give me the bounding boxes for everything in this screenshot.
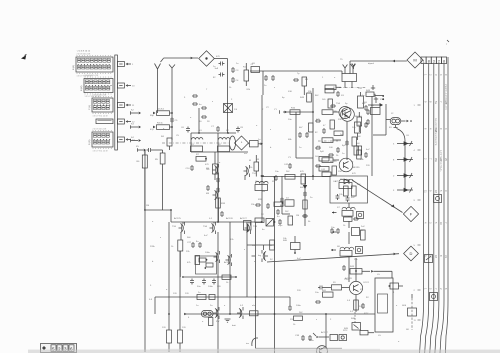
resistor R11 xyxy=(328,99,332,108)
coil S4 xyxy=(355,122,361,140)
value label b at 322,142 xyxy=(322,141,324,143)
switch output stub 14 xyxy=(117,137,135,142)
transistor TS11 xyxy=(344,279,363,295)
wire IF rail left xyxy=(261,95,263,222)
value label C5 at 176,136 xyxy=(176,135,180,137)
capacitor C26 xyxy=(330,228,340,234)
value label 2k at 336,156 xyxy=(336,155,339,157)
svg-text:2 4 6 8 10 14 18: 2 4 6 8 10 14 18 xyxy=(85,75,99,77)
svg-text:25V: 25V xyxy=(290,319,294,321)
value label 10u at 315,293 xyxy=(315,292,319,294)
value label 4k7 at 299,128 xyxy=(299,127,303,129)
resistor R26 xyxy=(344,186,349,196)
cable tap 4 xyxy=(414,150,421,152)
value label 470 at 352,174 xyxy=(352,173,356,175)
value label 0.2 at 350,312 xyxy=(350,311,354,313)
value label 68p at 150,116 xyxy=(150,115,154,117)
capacitor C44 xyxy=(303,191,307,197)
crystal box X4 xyxy=(224,104,238,113)
resistor R28 xyxy=(344,217,360,228)
trimmer box xyxy=(249,141,264,147)
value label S7 at 337,208 xyxy=(337,207,340,209)
value label 1k5 at 322,100 xyxy=(322,99,326,101)
value label 220 at 217,287 xyxy=(217,286,221,288)
value label Y2 at 266,108 xyxy=(266,107,269,109)
component R46 xyxy=(360,331,374,335)
value label 10n at 288,120 xyxy=(288,119,292,121)
value label 4n at 262,230 xyxy=(262,229,265,231)
value label 4p7 at 362,104 xyxy=(362,103,366,105)
value label 7p at 297,74 xyxy=(297,73,300,75)
svg-text:1 3 5 7 9 11 15 19: 1 3 5 7 9 11 15 19 xyxy=(93,150,108,152)
value label b at 270,148 xyxy=(270,147,272,149)
cable conductor 2 xyxy=(425,57,433,353)
value label a at 152,222 xyxy=(152,221,154,223)
value label 470 at 300,172 xyxy=(300,171,304,173)
svg-text:AFSTEMSCHAAL: AFSTEMSCHAAL xyxy=(439,150,442,173)
value label 39k at 317,147 xyxy=(317,146,321,148)
trim icon TP2 xyxy=(356,247,363,254)
value label R46 at 351,319 xyxy=(351,318,356,320)
node dot osc xyxy=(198,132,229,134)
wire y314 rail xyxy=(184,313,375,315)
value label 9V at 366,298 xyxy=(366,297,369,299)
value label 1k at 343,226 xyxy=(343,225,346,227)
value label AGC at 280,206 xyxy=(280,204,285,207)
resistor R15 xyxy=(332,166,336,175)
value label X2 at 261,215 xyxy=(261,214,264,216)
value label AC128 at 345,279 xyxy=(345,277,352,280)
plug socket D xyxy=(404,246,419,261)
plug socket F xyxy=(403,206,418,221)
svg-text:AC126: AC126 xyxy=(226,217,233,220)
value label 100u at 205,253 xyxy=(205,252,211,254)
value label 100n at 296,306 xyxy=(296,305,302,307)
stub arrow a xyxy=(332,211,337,213)
trim icon TP1 xyxy=(357,212,364,219)
value label 7 at 206,90 xyxy=(206,89,208,91)
cable conductor 3 xyxy=(430,57,438,353)
svg-text:M: M xyxy=(413,57,416,62)
switch frame bar xyxy=(115,55,118,150)
capacitor C1 xyxy=(213,62,225,69)
stub arrow d xyxy=(313,333,329,338)
capacitor C19 xyxy=(315,119,321,123)
wire output hook xyxy=(246,338,258,346)
value label OC74 at 363,283 xyxy=(363,282,369,284)
gang link line xyxy=(162,142,229,144)
wire x305 rail xyxy=(304,177,306,226)
cable tap 5 xyxy=(414,245,421,247)
detector box xyxy=(330,176,368,203)
value label 15k at 251,205 xyxy=(251,204,255,206)
value label 1k at 171,247 xyxy=(171,246,174,248)
svg-text:8: 8 xyxy=(443,59,445,63)
capacitor C42 xyxy=(284,163,292,169)
capacitor C23 xyxy=(274,175,278,181)
value label 1k at 293,325 xyxy=(293,324,296,326)
wire IF top link xyxy=(262,177,331,181)
capacitor C40 xyxy=(366,109,370,125)
value label 5W at 216,322 xyxy=(216,321,220,323)
IF transformer S5 xyxy=(255,181,268,191)
svg-text:AC128: AC128 xyxy=(224,261,231,264)
svg-text:9C: 9C xyxy=(270,259,273,261)
resistor R38 xyxy=(288,216,293,225)
resistor R10 xyxy=(325,89,334,93)
transistor TS13 xyxy=(213,307,219,319)
box X2 xyxy=(266,219,274,227)
value label 220 at 366,166 xyxy=(366,165,370,167)
capacitor C41 xyxy=(315,164,326,171)
value label 120 at 173,294 xyxy=(173,293,177,295)
value label AC125 at 174,219 xyxy=(174,217,181,220)
value label 75 at 340,60 xyxy=(340,59,343,61)
svg-text:9W: 9W xyxy=(434,158,438,162)
value label 82 at 315,133 xyxy=(315,132,318,134)
resistor R54 xyxy=(209,318,213,326)
svg-text:1M: 1M xyxy=(146,205,149,207)
antenna dipole xyxy=(342,64,357,88)
resistor R18 xyxy=(325,85,341,90)
capacitor C36 xyxy=(342,265,346,271)
value label 8k2 at 315,96 xyxy=(315,95,319,97)
cable conductor 5 xyxy=(440,57,448,353)
value label 5n6 at 317,167 xyxy=(317,166,321,168)
value label x at 316,320 xyxy=(316,319,318,321)
svg-text:1: 1 xyxy=(423,59,425,63)
box Z3 xyxy=(368,95,390,135)
driver transformer T1 xyxy=(202,311,214,318)
svg-text:500u: 500u xyxy=(309,340,315,342)
wire antenna to plug xyxy=(161,57,199,62)
capacitor C25 xyxy=(346,196,350,202)
svg-text:AC127: AC127 xyxy=(240,217,247,220)
value label o at 256,126 xyxy=(256,125,258,127)
resistor R29 xyxy=(361,230,366,240)
resistor R34 xyxy=(270,240,275,250)
icon box E1 xyxy=(434,195,442,203)
node J1 xyxy=(171,112,173,128)
capacitor C7 xyxy=(211,126,220,132)
orientation mark xyxy=(21,54,27,59)
capacitor C34 xyxy=(278,219,282,225)
capacitor C39 xyxy=(288,300,321,311)
capacitor C30 xyxy=(202,279,206,285)
cable tap 9 xyxy=(414,200,421,202)
svg-text:GELUIDSWEERGAVE: GELUIDSWEERGAVE xyxy=(434,118,437,146)
resistor R53 xyxy=(250,311,259,316)
svg-text:NTC: NTC xyxy=(343,330,348,332)
value label o at 398,342 xyxy=(398,341,400,343)
resistor R13 xyxy=(334,131,343,135)
plug socket D1 xyxy=(199,51,215,67)
value label 6k8 at 357,137 xyxy=(357,136,361,138)
value label BF at 334,112 xyxy=(334,111,337,113)
capacitor C17 xyxy=(298,132,302,138)
value label 5 at 184,98 xyxy=(184,97,186,99)
value label 1a at 196,306 xyxy=(196,305,199,307)
resistor R36 xyxy=(178,251,187,352)
capacitor C4 xyxy=(231,77,239,83)
value label a at 352,162 xyxy=(352,161,354,163)
capacitor C14 xyxy=(364,105,368,111)
value label 12k at 339,195 xyxy=(339,194,343,196)
value label 2k at 270,246 xyxy=(270,245,273,247)
value label 2n at 310,198 xyxy=(310,197,313,199)
transistor TS3 xyxy=(339,158,360,172)
detector coil S7 xyxy=(342,207,355,216)
value label OA79 at 333,182 xyxy=(333,180,339,183)
value label 500u at 309,341 xyxy=(309,340,315,342)
capacitor C45 xyxy=(302,214,308,218)
svg-text:100n: 100n xyxy=(296,305,302,307)
input stub K4 xyxy=(131,137,142,142)
value label dipool at 368,64 xyxy=(368,63,374,65)
capacitor C15 xyxy=(322,128,326,134)
capacitor C3 xyxy=(231,67,239,73)
svg-text:AC127: AC127 xyxy=(321,331,328,334)
svg-text:C (L): C (L) xyxy=(89,105,91,110)
resistor R51 xyxy=(357,150,361,159)
wire tuner down xyxy=(346,122,348,160)
capacitor C16 xyxy=(328,147,340,157)
value label 1n at 258,140 xyxy=(258,139,261,141)
value label 33k at 360,160 xyxy=(360,159,364,161)
node dots rails xyxy=(144,111,357,315)
switch SK1 contact block xyxy=(73,51,113,78)
wire x146 rail xyxy=(144,150,146,210)
value label 28 at 207,122 xyxy=(207,121,210,123)
resistor R56 xyxy=(249,155,259,177)
output box B2 xyxy=(197,292,215,300)
capacitor C31 xyxy=(212,279,216,285)
value label NTC at 364,314 xyxy=(364,313,369,315)
value label 4 at 393,293 xyxy=(393,292,395,294)
resistor R16 xyxy=(290,108,300,115)
tuning capacitor C9 rotor xyxy=(230,136,236,150)
svg-text:1M: 1M xyxy=(296,215,299,217)
switch output stub 12 xyxy=(117,119,135,124)
capacitor C29 xyxy=(190,279,194,285)
value label SK at 406,330 xyxy=(406,329,409,331)
value label 4u7 at 204,236 xyxy=(204,235,208,237)
wire x274 rail xyxy=(274,176,276,353)
speaker terminal xyxy=(388,283,403,289)
value label 1n at 342,154 xyxy=(342,153,345,155)
value label x at 244,250 xyxy=(244,249,246,251)
wire det chain xyxy=(348,203,350,282)
value label e at 224,306 xyxy=(224,305,226,307)
cable tap 1 xyxy=(414,105,421,107)
value label C52 at 358,89 xyxy=(358,88,363,90)
svg-text:2 4 6 8 10 14 18: 2 4 6 8 10 14 18 xyxy=(77,53,91,55)
value label 0.1 at 209,219 xyxy=(209,218,213,220)
wire volume line xyxy=(267,253,399,262)
contact pin 5 xyxy=(393,141,413,146)
resistor R58 xyxy=(319,157,329,162)
switch SK3 contact block xyxy=(89,94,113,117)
value label 47p at 150,130 xyxy=(150,129,154,131)
svg-text:2 4 6 8 10 14 18: 2 4 6 8 10 14 18 xyxy=(93,94,107,96)
value label o at 334,78 xyxy=(334,77,336,79)
value label 2a at 210,306 xyxy=(210,305,213,307)
capacitor C22 xyxy=(364,152,368,158)
capacitor C28 xyxy=(198,242,202,248)
value label 5k at 308,222 xyxy=(308,221,311,223)
resistor R48 xyxy=(300,93,311,102)
value label x at 270,130 xyxy=(270,129,272,131)
ground mark G1 xyxy=(225,319,231,322)
value label x at 274,88 xyxy=(274,87,276,89)
value label 47k at 187,263 xyxy=(187,262,191,264)
svg-text:3: 3 xyxy=(433,59,435,63)
transistor TS12 xyxy=(317,346,328,353)
wire left rail lower xyxy=(144,210,146,352)
switch link dashed xyxy=(411,298,413,330)
wire gang top rail xyxy=(191,133,236,152)
capacitor C24 xyxy=(336,194,340,200)
value label 4 at 188,318 xyxy=(188,317,190,319)
wire to speaker xyxy=(362,270,392,278)
resistor R17 xyxy=(309,123,314,132)
resistor R52 xyxy=(322,172,331,176)
value label 4u7 at 297,259 xyxy=(297,258,301,260)
wire TS11 up xyxy=(355,258,357,281)
value label 10n at 331,228 xyxy=(331,227,335,229)
value label 5k6 at 187,238 xyxy=(187,237,191,239)
value label o at 202,322 xyxy=(202,321,204,323)
value label 50u at 197,287 xyxy=(197,286,201,288)
value label 8u at 196,242 xyxy=(196,241,199,243)
value label 3p9 at 320,152 xyxy=(320,151,324,153)
capacitor C5 xyxy=(170,117,178,123)
value label 1M at 296,216 xyxy=(296,215,299,217)
collector load R22 xyxy=(357,112,362,132)
wire y297 rail xyxy=(155,297,256,314)
resistor R6 xyxy=(137,151,148,211)
value label AC128 at 224,263 xyxy=(224,261,231,264)
resistor R50 xyxy=(345,137,356,146)
coil S2 xyxy=(218,138,230,152)
value label a at 219,163 xyxy=(219,162,221,164)
resistor R32 xyxy=(222,275,231,279)
capacitor C35 xyxy=(318,286,331,290)
value label 0.2 at 240,306 xyxy=(240,305,244,307)
svg-text:B (M): B (M) xyxy=(81,85,83,91)
value label 10n at 275,172 xyxy=(275,171,279,173)
transistor TS14 xyxy=(237,307,243,319)
value label Y3 at 288,158 xyxy=(288,157,291,159)
switch SK4 slider bar xyxy=(96,119,113,124)
cable conductor 6 xyxy=(446,40,450,353)
svg-text:AC125: AC125 xyxy=(174,217,181,220)
capacitor C32 xyxy=(216,177,220,193)
value label C38 at 295,336 xyxy=(295,335,300,337)
value label batt at 232,326 xyxy=(232,324,236,327)
value label 220 at 297,291 xyxy=(297,290,301,292)
svg-text:BF195: BF195 xyxy=(330,161,337,163)
value label 22k at 186,252 xyxy=(186,251,190,253)
stub arrow c xyxy=(331,249,336,251)
contact pin 0 xyxy=(393,173,413,178)
resistor R25 xyxy=(301,174,306,184)
value label 100 at 359,307 xyxy=(359,306,363,308)
ground T1 xyxy=(371,85,375,90)
diode X3 xyxy=(303,185,307,189)
switch output stub 10 xyxy=(117,83,135,88)
value label Z at 262,110 xyxy=(262,109,264,111)
value label 47 at 323,126 xyxy=(323,125,326,127)
transistor TS5 xyxy=(172,222,185,240)
diode X1 xyxy=(344,179,349,184)
value label b at 152,262 xyxy=(152,261,154,263)
resistor R30 xyxy=(178,240,183,277)
value label 1n at 236,64 xyxy=(236,63,239,65)
svg-text:VERKLARING BLOK: VERKLARING BLOK xyxy=(444,84,447,110)
value label 2k2 at 299,313 xyxy=(299,312,303,314)
wire mid rail xyxy=(184,276,236,278)
capacitor C6 xyxy=(181,127,190,133)
box Z2 xyxy=(352,228,365,236)
capacitor C33 xyxy=(220,211,224,217)
value label J2 at 391,114 xyxy=(391,113,394,115)
cable conductor 4 xyxy=(435,57,443,353)
plug socket M xyxy=(407,52,423,68)
svg-text:100n: 100n xyxy=(208,286,214,288)
svg-text:C: C xyxy=(444,190,448,192)
value label e at 254,262 xyxy=(254,261,256,263)
stub arrow b xyxy=(332,231,337,233)
value label 45 at 360,290 xyxy=(360,289,363,291)
capacitor C8 xyxy=(236,127,244,133)
value label 1k at 250,168 xyxy=(250,167,253,169)
value label S10 at 288,92 xyxy=(288,91,293,93)
value label osc at 244,154 xyxy=(244,153,248,155)
contact pin stem xyxy=(397,129,406,191)
input stub K5 xyxy=(136,146,153,152)
capacitor C27 xyxy=(187,242,195,248)
pot box R57 xyxy=(244,221,252,233)
capacitor C43 xyxy=(280,197,284,203)
value label 2k2 at 286,172 xyxy=(286,171,290,173)
svg-text:R3 1k: R3 1k xyxy=(157,123,164,125)
value label log at 258,256 xyxy=(258,255,262,257)
svg-text:AGC: AGC xyxy=(280,204,285,207)
wire out coupling xyxy=(256,296,291,298)
value label 2k2 at 252,246 xyxy=(252,245,256,247)
value label det at 262,192 xyxy=(262,190,265,193)
wire x230 rail xyxy=(218,222,230,353)
transistor TS1 xyxy=(244,165,257,180)
value label 12k at 230,240 xyxy=(230,239,234,241)
switch output stub 1 xyxy=(117,62,134,67)
value label 2 at 231,100 xyxy=(231,99,233,101)
resistor R4 xyxy=(161,136,172,150)
resistor R43 xyxy=(350,266,362,274)
value label b at 230,256 xyxy=(230,255,232,257)
svg-text:1 3 5 7 9 11 15 19: 1 3 5 7 9 11 15 19 xyxy=(93,115,108,117)
wire gang bottom rail xyxy=(191,151,248,153)
stub top xyxy=(375,94,384,97)
resistor R55 xyxy=(303,200,307,209)
svg-text:· 2 4 6 8 10 12: · 2 4 6 8 10 12 xyxy=(76,51,91,53)
value label 0.5 at 149,300 xyxy=(149,299,153,301)
value label S3 at 341,96 xyxy=(341,95,344,97)
wire audio top rail xyxy=(146,210,263,222)
capacitor C13 xyxy=(330,104,336,108)
resistor R37 xyxy=(255,218,264,222)
